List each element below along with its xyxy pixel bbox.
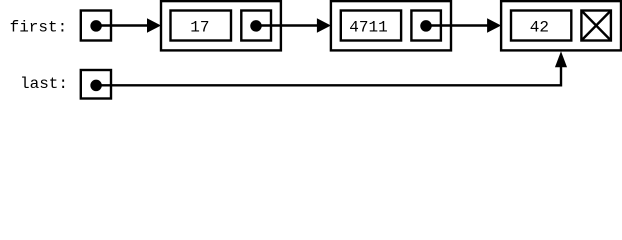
arrowhead into node2 [317,18,331,33]
dot last [90,80,102,92]
pointer box first [81,11,111,41]
node2 outer box [331,1,451,50]
node3 outer box [501,1,621,50]
svg-text:4711: 4711 [349,19,387,37]
node1 outer box [161,1,281,50]
null cross diagonal 2 [581,11,611,41]
node2 pointer box [411,11,441,41]
arrowhead into node1 [147,18,161,33]
pointer box last [81,70,111,99]
wire first to node1 [96,24,149,26]
wire last to node3 (corner) [96,67,561,85]
arrowhead into node3 [487,18,501,33]
svg-text:17: 17 [190,19,209,37]
null cross diagonal 1 [581,11,611,41]
arrowhead up into node3 [555,51,567,67]
wire node2 to node3 [426,24,489,26]
svg-text:last:: last: [20,75,68,93]
node3 value box [511,11,571,41]
node2 value box [341,11,401,41]
svg-text:42: 42 [530,19,549,37]
svg-text:first:: first: [10,19,68,37]
null box node3 [581,11,611,41]
node1 value box [171,11,232,41]
dot first [90,20,102,32]
dot node1 [250,20,262,32]
dot node2 [420,20,432,32]
node1 pointer box [241,11,271,41]
wire node1 to node2 [256,24,318,26]
